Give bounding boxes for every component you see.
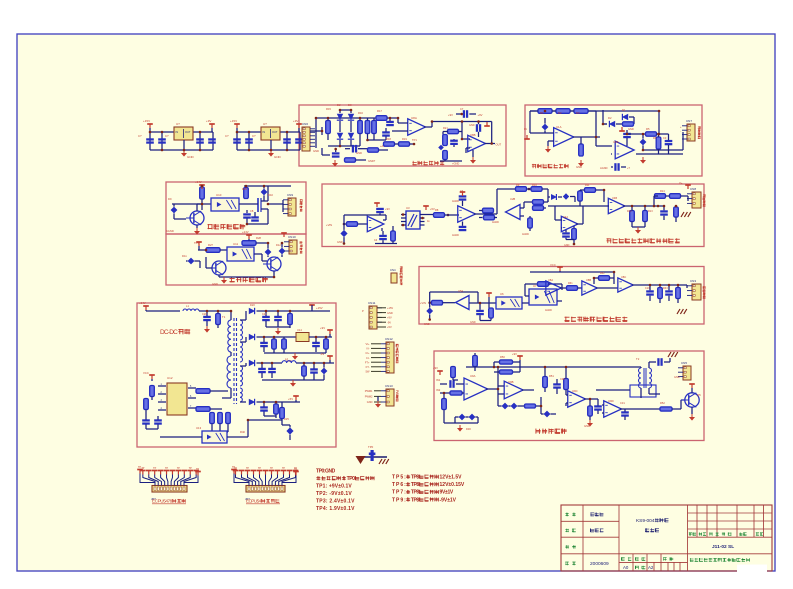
- svg-text:D9: D9: [168, 197, 172, 201]
- svg-text:C?: C?: [225, 134, 229, 138]
- svg-text:CN4: CN4: [390, 268, 396, 272]
- svg-text:R31: R31: [568, 282, 573, 285]
- svg-text:GND: GND: [470, 321, 476, 324]
- svg-text:AGND: AGND: [492, 221, 499, 224]
- svg-text:C?: C?: [138, 134, 142, 138]
- svg-text:R27: R27: [208, 243, 213, 247]
- svg-text:IN: IN: [524, 127, 527, 131]
- svg-text:2000609: 2000609: [590, 561, 609, 567]
- svg-text:CN9: CN9: [287, 193, 293, 197]
- svg-text:U12: U12: [167, 376, 173, 380]
- svg-text:U4A: U4A: [563, 215, 568, 219]
- svg-text:TP8: TP8: [411, 490, 419, 496]
- svg-text:R40: R40: [240, 430, 245, 434]
- svg-text:TP: TP: [258, 467, 261, 470]
- svg-text:TP8: TP8: [411, 475, 419, 481]
- svg-text:A2: A2: [648, 565, 654, 570]
- svg-text:+5V: +5V: [387, 325, 392, 329]
- svg-text:C10: C10: [645, 287, 650, 290]
- svg-text:U3: U3: [406, 206, 410, 210]
- svg-text:D25: D25: [284, 417, 289, 421]
- svg-text:AGND: AGND: [452, 200, 459, 203]
- svg-text:TP: TP: [294, 468, 298, 471]
- svg-text:CI-: CI-: [366, 356, 370, 360]
- svg-text:+9V: +9V: [320, 326, 325, 330]
- svg-text:U1A: U1A: [556, 125, 562, 129]
- svg-text:+15V: +15V: [387, 306, 393, 310]
- svg-text:CN12: CN12: [385, 337, 393, 341]
- svg-text:TP8: TP8: [411, 497, 419, 503]
- svg-text:+24V: +24V: [139, 301, 146, 305]
- svg-text:U?: U?: [176, 122, 180, 126]
- svg-text:C30: C30: [560, 377, 565, 381]
- svg-text:+9V: +9V: [448, 113, 453, 117]
- svg-text:U14: U14: [297, 328, 302, 332]
- svg-text:TP7:: TP7:: [392, 490, 406, 496]
- svg-text:+VIN: +VIN: [326, 223, 332, 227]
- svg-text:AGND: AGND: [600, 166, 608, 170]
- svg-text:R28: R28: [256, 236, 261, 240]
- svg-text:R50: R50: [500, 355, 505, 359]
- svg-text:D1: D1: [622, 108, 626, 112]
- svg-text:TP2: -9V±0.1V: TP2: -9V±0.1V: [316, 491, 352, 497]
- svg-text:TP5:: TP5:: [392, 475, 406, 481]
- svg-text:GND: GND: [356, 151, 362, 155]
- svg-text:D30: D30: [466, 427, 471, 431]
- svg-text:P: P: [362, 309, 364, 313]
- svg-text:GND: GND: [274, 155, 282, 159]
- svg-text:TP6:: TP6:: [392, 482, 406, 488]
- svg-text:U9D: U9D: [608, 399, 614, 403]
- svg-text:U13: U13: [196, 426, 202, 430]
- svg-text:U4B: U4B: [612, 196, 617, 200]
- svg-text:OUT: OUT: [496, 143, 502, 147]
- svg-text:AGND: AGND: [452, 234, 459, 237]
- svg-text:PWM2: PWM2: [365, 395, 373, 399]
- svg-text:TP9:: TP9:: [392, 497, 406, 503]
- svg-text:R15: R15: [326, 107, 331, 111]
- svg-text:U9A: U9A: [470, 374, 476, 378]
- svg-text:D11: D11: [182, 254, 187, 258]
- svg-text:J11-02 SL: J11-02 SL: [712, 544, 734, 550]
- svg-text:-9V±1V: -9V±1V: [440, 497, 457, 503]
- svg-text:R32: R32: [600, 272, 605, 275]
- svg-text:R18: R18: [386, 137, 391, 141]
- svg-text:+GND: +GND: [452, 162, 459, 166]
- svg-text:C7: C7: [460, 107, 464, 111]
- svg-text:GND: GND: [367, 400, 373, 404]
- svg-text:C8: C8: [250, 209, 254, 213]
- svg-text:GND: GND: [576, 165, 582, 169]
- svg-text:OUT: OUT: [185, 130, 191, 134]
- svg-text:+24V: +24V: [195, 180, 202, 184]
- svg-text:R8: R8: [435, 208, 439, 212]
- svg-text:CN11: CN11: [368, 301, 376, 305]
- svg-text:CN3: CN3: [690, 279, 696, 283]
- svg-text:U8B: U8B: [586, 278, 591, 282]
- svg-text:-9V: -9V: [320, 352, 324, 356]
- svg-text:GND: GND: [212, 282, 218, 286]
- svg-text:R2: R2: [558, 111, 562, 115]
- svg-text:+5V: +5V: [288, 397, 293, 401]
- svg-text:CN8: CN8: [690, 187, 696, 191]
- svg-text:GND: GND: [313, 149, 319, 153]
- svg-text:+15V: +15V: [143, 119, 150, 123]
- svg-text:IN1: IN1: [436, 378, 441, 382]
- svg-text:U5A: U5A: [458, 289, 463, 293]
- svg-text:TP: TP: [165, 467, 168, 470]
- svg-text:IN: IN: [176, 130, 179, 134]
- svg-text:TP0: TP0: [368, 445, 374, 449]
- svg-text:CI+: CI+: [365, 351, 370, 355]
- svg-text:D2: D2: [337, 103, 341, 107]
- svg-text:VI+: VI+: [366, 342, 370, 346]
- svg-text:T1: T1: [222, 315, 226, 319]
- svg-text:L1: L1: [186, 304, 189, 308]
- svg-text:AGND: AGND: [522, 233, 529, 236]
- svg-text:SW: SW: [365, 370, 370, 374]
- svg-text:R11: R11: [585, 184, 590, 187]
- svg-text:GND: GND: [337, 241, 343, 244]
- svg-text:C31: C31: [620, 401, 625, 405]
- svg-text:GND: GND: [424, 323, 430, 326]
- svg-text:TP1: +9V±0.1V: TP1: +9V±0.1V: [316, 484, 352, 490]
- svg-text:+15V: +15V: [230, 119, 237, 123]
- svg-text:R3: R3: [576, 111, 580, 115]
- svg-text:GND?: GND?: [368, 159, 376, 163]
- svg-text:TP: TP: [138, 466, 142, 469]
- svg-text:R52: R52: [660, 401, 665, 405]
- svg-text:-9V: -9V: [387, 320, 391, 324]
- svg-text:OUT: OUT: [272, 130, 278, 134]
- svg-text:A0: A0: [623, 565, 629, 570]
- svg-text:R16: R16: [358, 111, 363, 115]
- svg-text:R13: R13: [648, 210, 653, 213]
- svg-text:U8A: U8A: [411, 116, 417, 120]
- svg-text:GND: GND: [387, 311, 393, 315]
- svg-text:AGND: AGND: [545, 309, 552, 312]
- svg-text:+9V: +9V: [478, 113, 483, 117]
- svg-text:U9B: U9B: [508, 380, 514, 384]
- svg-text:C?: C?: [165, 134, 169, 138]
- svg-text:R1: R1: [540, 111, 544, 115]
- svg-text:GND: GND: [187, 155, 195, 159]
- svg-text:TP0:GND: TP0:GND: [316, 469, 336, 475]
- svg-text:R51: R51: [549, 374, 554, 378]
- svg-text:C21: C21: [262, 313, 267, 316]
- svg-text:TP: TP: [270, 467, 273, 470]
- svg-text:IN2: IN2: [436, 388, 441, 392]
- svg-text:TP0: TP0: [347, 476, 355, 482]
- svg-text:TP: TP: [153, 467, 156, 470]
- svg-text:D12: D12: [276, 243, 281, 247]
- svg-text:+9V: +9V: [385, 207, 390, 211]
- svg-text:VI-: VI-: [366, 347, 369, 351]
- svg-text:D20: D20: [250, 303, 255, 307]
- svg-text:U2B: U2B: [510, 197, 515, 201]
- svg-text:R12: R12: [627, 210, 632, 213]
- svg-text:R17: R17: [377, 109, 382, 113]
- svg-text:FT+: FT+: [365, 360, 370, 364]
- svg-text:CN7: CN7: [686, 119, 692, 123]
- svg-text:U?: U?: [263, 122, 267, 126]
- svg-text:+9V: +9V: [387, 316, 392, 320]
- svg-text:R19: R19: [402, 137, 407, 141]
- svg-text:CN10: CN10: [288, 235, 296, 239]
- svg-text:FT-: FT-: [366, 365, 370, 369]
- svg-text:D10: D10: [268, 193, 273, 197]
- svg-text:C20: C20: [202, 312, 207, 316]
- svg-text:GND: GND: [469, 124, 475, 127]
- svg-text:U11: U11: [233, 242, 238, 246]
- svg-text:PWM1: PWM1: [365, 389, 373, 393]
- svg-text:+9V: +9V: [293, 119, 298, 123]
- svg-text:D2: D2: [608, 116, 612, 120]
- svg-text:TP: TP: [196, 468, 200, 471]
- svg-text:+9V: +9V: [512, 352, 517, 356]
- svg-text:Q5: Q5: [697, 393, 701, 397]
- svg-text:DC-DC: DC-DC: [160, 329, 178, 336]
- svg-text:R25: R25: [242, 187, 247, 191]
- svg-text:VCC: VCC: [550, 263, 556, 267]
- svg-text:TP1: TP1: [412, 138, 417, 142]
- svg-text:U8C: U8C: [621, 275, 626, 279]
- svg-text:TP: TP: [232, 466, 236, 469]
- svg-text:R6: R6: [653, 136, 657, 140]
- svg-text:-: -: [680, 130, 681, 133]
- svg-text:R14: R14: [660, 190, 665, 193]
- svg-text:CN5: CN5: [681, 361, 687, 365]
- svg-text:R33: R33: [663, 287, 668, 290]
- svg-text:12V±0.15V: 12V±0.15V: [440, 482, 465, 488]
- svg-text:TP4: 1.9V±0.1V: TP4: 1.9V±0.1V: [316, 506, 355, 512]
- svg-text:+9V: +9V: [433, 366, 438, 370]
- svg-text:R21: R21: [443, 126, 448, 130]
- svg-text:U1B: U1B: [613, 140, 619, 144]
- svg-text:D3: D3: [348, 103, 352, 107]
- svg-text:U10: U10: [216, 193, 222, 197]
- svg-text:T2: T2: [636, 357, 640, 361]
- svg-text:U8B: U8B: [470, 133, 476, 137]
- svg-text:TP: TP: [282, 467, 285, 470]
- svg-text:ECPU5478: ECPU5478: [152, 499, 173, 504]
- svg-text:ECPU54: ECPU54: [246, 499, 262, 504]
- svg-text:AGND: AGND: [166, 229, 174, 233]
- svg-text:R5: R5: [646, 127, 650, 131]
- svg-text:R9: R9: [516, 183, 520, 187]
- svg-text:GND: GND: [674, 376, 680, 379]
- svg-text:KS9-004: KS9-004: [636, 518, 655, 524]
- svg-text:12V±1.5V: 12V±1.5V: [440, 475, 463, 481]
- svg-text:U9C: U9C: [572, 389, 578, 393]
- svg-text:GND: GND: [628, 127, 634, 131]
- svg-text:CN13: CN13: [385, 384, 393, 388]
- svg-text:TP3: 2.4V±0.1V: TP3: 2.4V±0.1V: [316, 499, 355, 505]
- svg-text:VCC: VCC: [143, 371, 149, 375]
- svg-text:CN6: CN6: [302, 122, 308, 126]
- svg-text:+24V: +24V: [242, 230, 249, 234]
- svg-text:R10: R10: [532, 183, 537, 187]
- svg-text:+15V: +15V: [316, 306, 323, 310]
- svg-text:TP8: TP8: [411, 482, 419, 488]
- svg-text:GND: GND: [564, 244, 570, 247]
- svg-text:TP: TP: [177, 467, 180, 470]
- svg-text:TP: TP: [189, 467, 192, 470]
- svg-text:GND: GND: [584, 424, 590, 428]
- svg-text:C3: C3: [663, 136, 667, 140]
- svg-text:9V±1V: 9V±1V: [440, 490, 454, 496]
- svg-text:U6: U6: [500, 292, 504, 296]
- svg-text:V+: V+: [679, 181, 683, 185]
- svg-text:TP: TP: [246, 467, 249, 470]
- svg-text:+VIN: +VIN: [420, 301, 426, 305]
- svg-text:+9V: +9V: [206, 119, 211, 123]
- svg-text:U8A: U8A: [548, 278, 553, 282]
- svg-text:IN: IN: [263, 130, 266, 134]
- svg-text:C?: C?: [252, 134, 256, 138]
